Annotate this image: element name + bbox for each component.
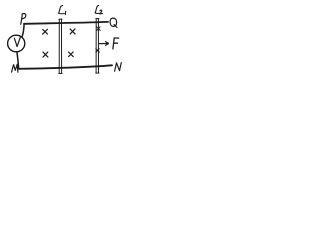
voltmeter V [8, 35, 25, 52]
label Q [110, 18, 117, 27]
label M [12, 64, 18, 72]
field mark x top-left [43, 29, 48, 34]
label P [21, 14, 26, 25]
label L2 [95, 5, 102, 13]
wire left drop from P corner to voltmeter [22, 24, 24, 37]
wire top rail P-Q [24, 22, 108, 24]
label N [115, 63, 122, 72]
wire bottom rail M-N [19, 65, 112, 69]
conducting bar L1 [59, 19, 62, 73]
field mark x top-middle [70, 29, 75, 34]
conducting bar L2 [96, 19, 99, 74]
field mark x bottom-middle [69, 52, 74, 57]
label F [113, 38, 119, 49]
force arrow F on bar L2 [99, 42, 109, 46]
field mark x small lower near L2 [96, 49, 100, 52]
label L1 [59, 6, 66, 15]
field mark x bottom-left [43, 52, 48, 57]
wire from voltmeter down to M corner [17, 52, 19, 69]
field mark x small upper near L2 [97, 27, 101, 31]
